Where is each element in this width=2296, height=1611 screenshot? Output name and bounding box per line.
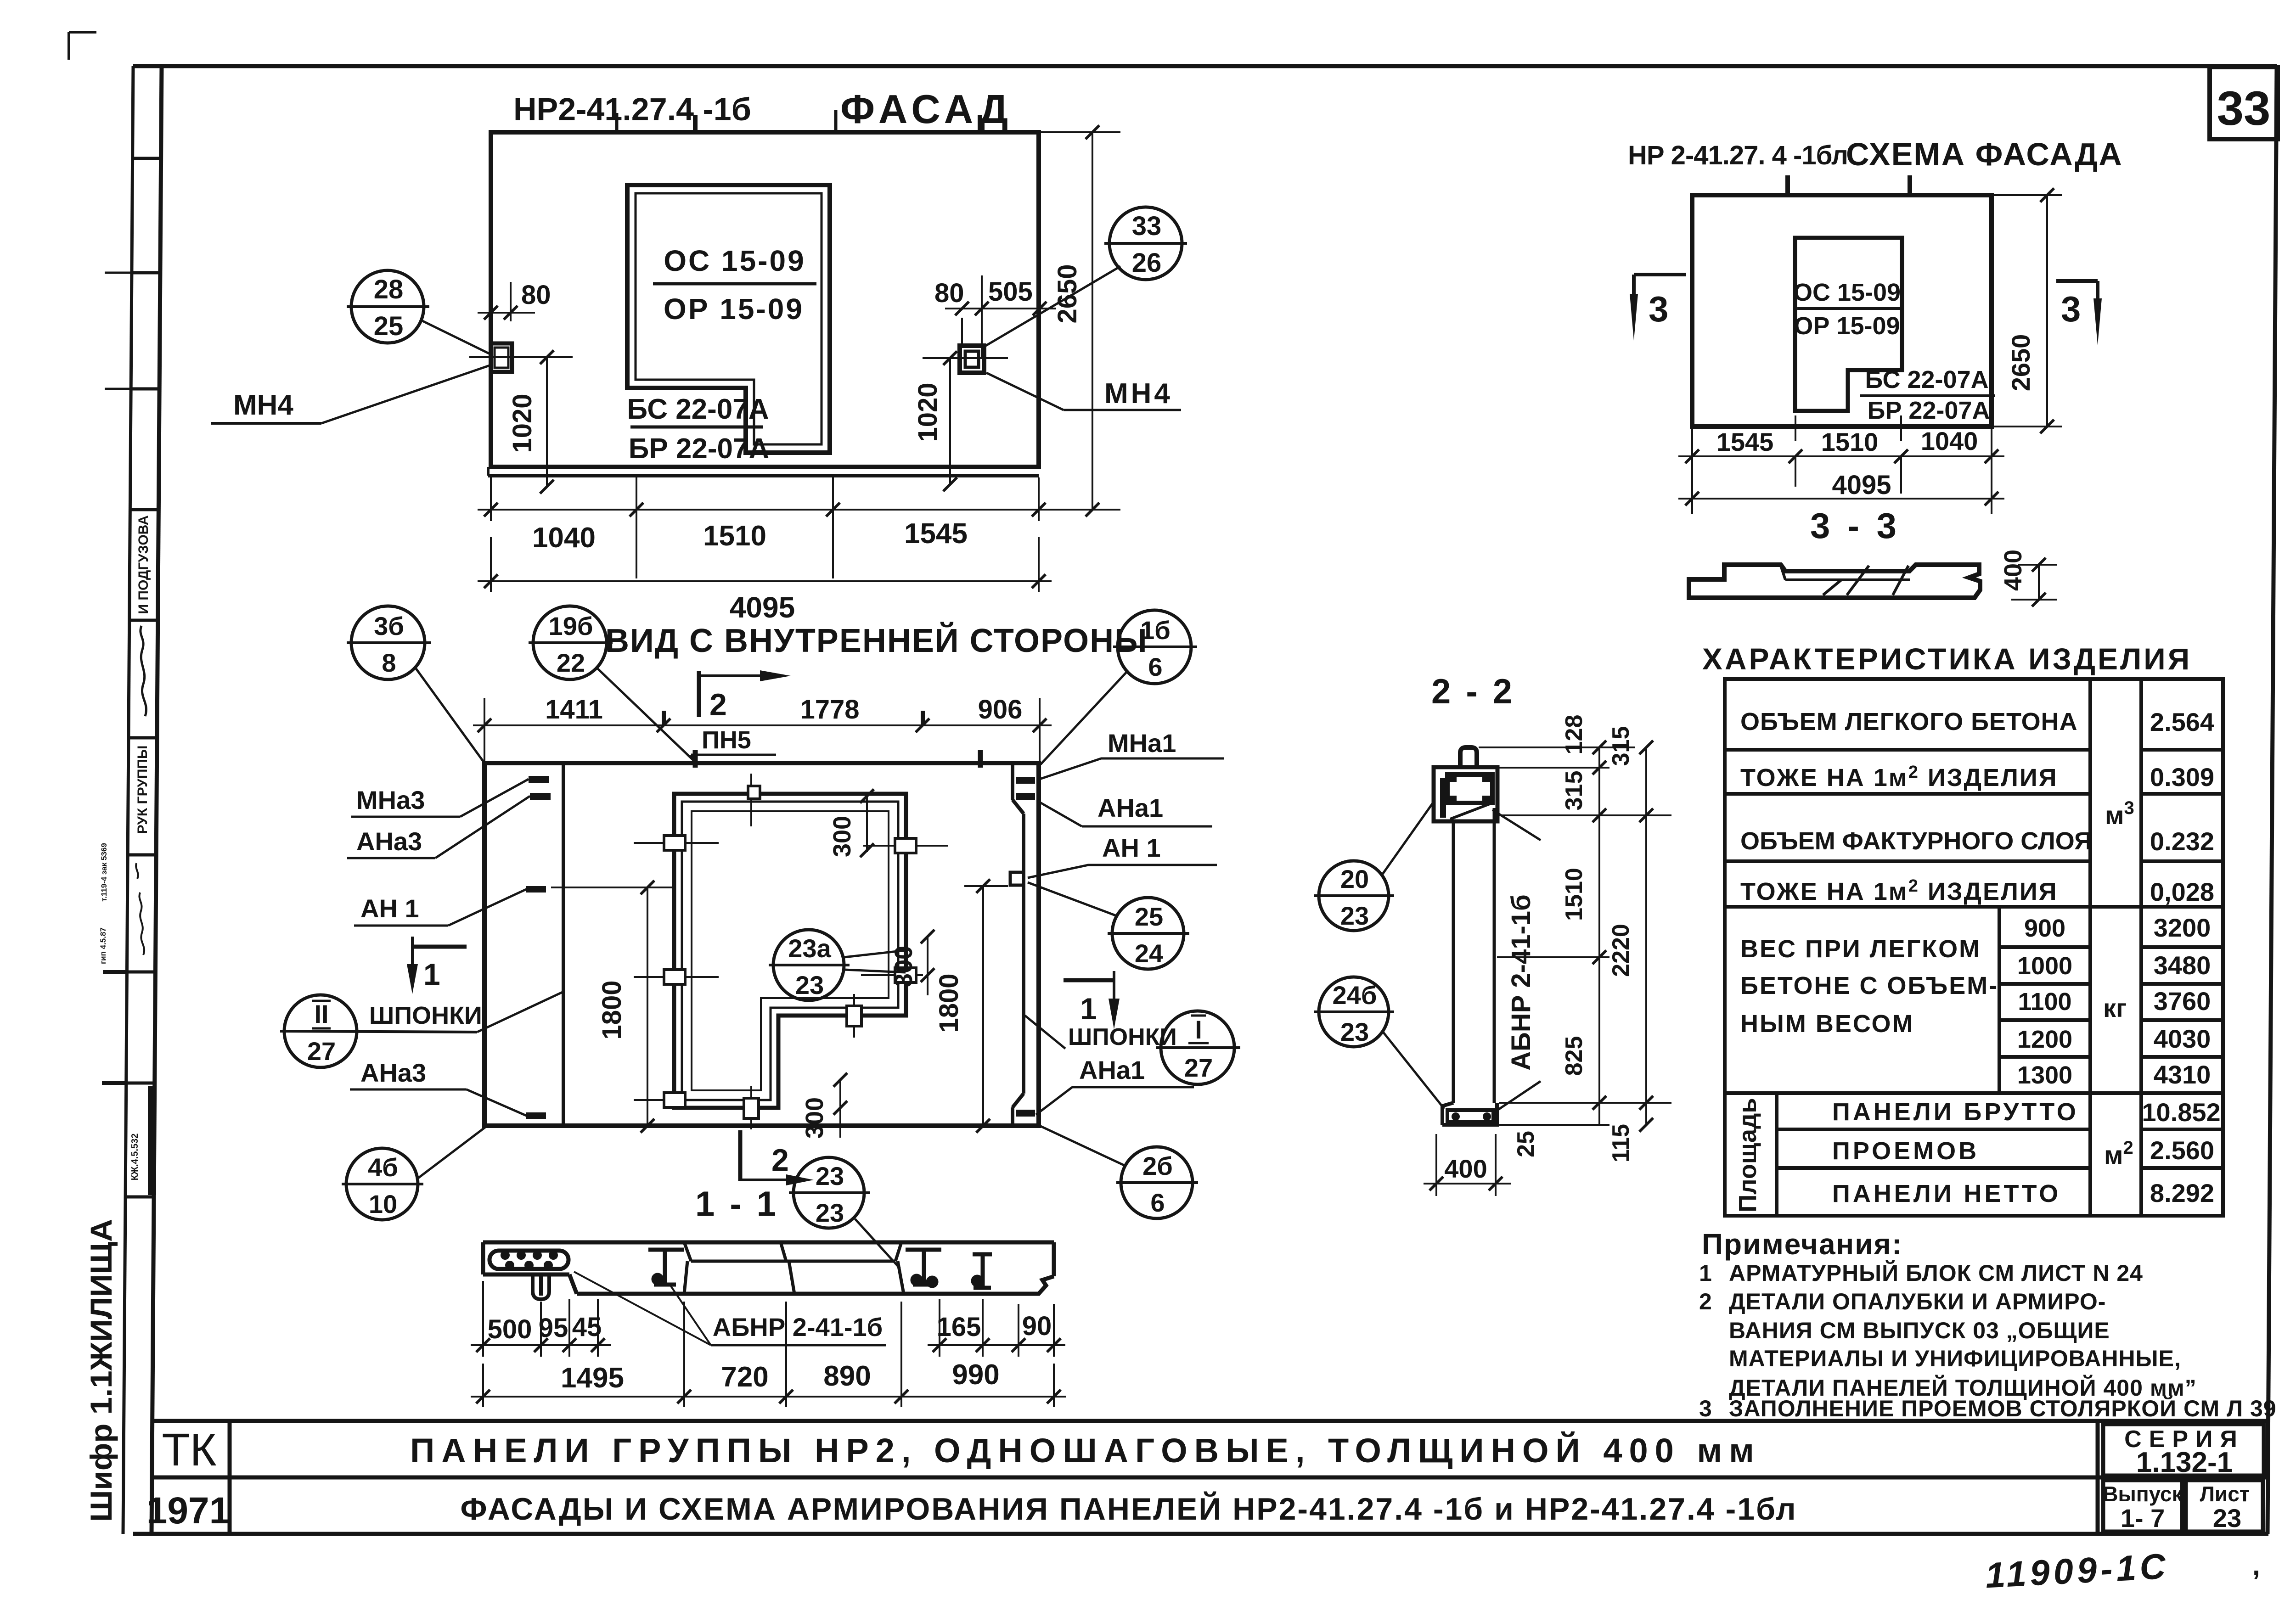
1-1 hook below bbox=[533, 1274, 549, 1299]
svg-text:4030: 4030 bbox=[2154, 1024, 2211, 1053]
svg-text:8.292: 8.292 bbox=[2150, 1179, 2214, 1207]
svg-text:90: 90 bbox=[1022, 1311, 1052, 1341]
svg-text:33: 33 bbox=[2217, 82, 2271, 135]
svg-text:ОР 15-09: ОР 15-09 bbox=[1794, 312, 1900, 340]
callout circle 23a/23 bbox=[769, 930, 906, 1000]
svg-text:МАТЕРИАЛЫ И УНИФИЦИРОВАННЫЕ,: МАТЕРИАЛЫ И УНИФИЦИРОВАННЫЕ, bbox=[1729, 1346, 2181, 1371]
dim 300 bottom bbox=[839, 1080, 841, 1138]
svg-text:НЫМ ВЕСОМ: НЫМ ВЕСОМ bbox=[1740, 1010, 1914, 1038]
dim 1800 right bbox=[964, 885, 1008, 887]
svg-text:1300: 1300 bbox=[2017, 1061, 2072, 1089]
svg-text:ЗАПОЛНЕНИЕ ПРОЕМОВ СТОЛЯРКОЙ С: ЗАПОЛНЕНИЕ ПРОЕМОВ СТОЛЯРКОЙ СМ Л 39 bbox=[1729, 1395, 2277, 1421]
section mark 1 left bbox=[407, 937, 467, 994]
svg-text:ПАНЕЛИ НЕТТО: ПАНЕЛИ НЕТТО bbox=[1832, 1180, 2061, 1207]
callout circle 23/23 bbox=[789, 1157, 900, 1269]
1-1 end channel C bbox=[973, 1254, 992, 1288]
value column bbox=[2142, 707, 2220, 1207]
schema dim 2650 right bbox=[1993, 194, 2062, 196]
interior panel outline bbox=[484, 763, 1039, 1126]
svg-text:АБНР 2-41-1б: АБНР 2-41-1б bbox=[713, 1313, 883, 1342]
svg-text:3б: 3б bbox=[374, 612, 404, 640]
facade bottom dims row 2: 4095 bbox=[490, 537, 492, 592]
svg-text:23: 23 bbox=[1340, 901, 1369, 930]
svg-text:1020: 1020 bbox=[507, 393, 537, 453]
svg-text:1510: 1510 bbox=[703, 520, 766, 552]
schema panel outline bbox=[1692, 195, 1992, 427]
svg-text:,: , bbox=[2252, 1550, 2260, 1581]
svg-text:128: 128 bbox=[1561, 715, 1587, 755]
sidebar signature cell texts (rotated) bbox=[135, 515, 151, 834]
svg-text:НР 2-41.27. 4 -1бл: НР 2-41.27. 4 -1бл bbox=[1628, 140, 1848, 170]
svg-text:1495: 1495 bbox=[561, 1362, 624, 1394]
sheet number box 33 bbox=[2210, 67, 2278, 139]
AH1 tab right bbox=[1010, 872, 1024, 885]
margin register ticks bbox=[105, 272, 132, 274]
svg-text:РУК ГРУППЫ: РУК ГРУППЫ bbox=[135, 746, 150, 834]
svg-text:3760: 3760 bbox=[2154, 987, 2211, 1016]
facade dim 2650 right bbox=[1041, 131, 1120, 133]
svg-text:1778: 1778 bbox=[800, 695, 859, 724]
interior window opening triple outline bbox=[674, 794, 906, 1108]
svg-text:19б: 19б bbox=[549, 612, 593, 640]
2-2 dim 400 bottom bbox=[1435, 1134, 1437, 1196]
svg-text:3 - 3: 3 - 3 bbox=[1810, 505, 1900, 546]
svg-text:4095: 4095 bbox=[1832, 470, 1891, 500]
svg-text:1545: 1545 bbox=[1716, 427, 1774, 456]
svg-text:2: 2 bbox=[709, 687, 727, 722]
svg-text:МНа3: МНа3 bbox=[356, 786, 425, 814]
svg-text:ОР 15-09: ОР 15-09 bbox=[664, 292, 804, 326]
facade window opening (L-shape) bbox=[627, 185, 830, 453]
svg-text:ФАСАДЫ И СХЕМА АРМИРОВАНИЯ ПАН: ФАСАДЫ И СХЕМА АРМИРОВАНИЯ ПАНЕЛЕЙ НР2-4… bbox=[460, 1491, 1797, 1527]
callout circle 19b/22 bbox=[529, 606, 694, 761]
svg-text:23: 23 bbox=[816, 1198, 844, 1227]
right rib anchor bars bbox=[1016, 777, 1035, 784]
callout circle 24b/23 bbox=[1314, 977, 1444, 1109]
svg-text:МН4: МН4 bbox=[233, 389, 293, 421]
svg-text:2650: 2650 bbox=[2006, 334, 2035, 392]
svg-text:20: 20 bbox=[1340, 864, 1369, 893]
svg-text:Площадь: Площадь bbox=[1734, 1098, 1761, 1212]
svg-text:Шифр 1.1ЖИЛИЩА: Шифр 1.1ЖИЛИЩА bbox=[84, 1219, 118, 1522]
svg-text:315: 315 bbox=[1561, 771, 1587, 811]
svg-text:Лист: Лист bbox=[2200, 1482, 2250, 1506]
facade panel outline bbox=[491, 132, 1039, 467]
svg-text:400: 400 bbox=[1444, 1154, 1487, 1183]
section mark 3 left bbox=[1630, 275, 1686, 341]
svg-text:0.309: 0.309 bbox=[2150, 763, 2214, 791]
svg-text:115: 115 bbox=[1608, 1124, 1634, 1162]
sidebar black bar cell bbox=[148, 1086, 156, 1195]
schema window opening (mirrored L) bbox=[1795, 238, 1902, 411]
svg-text:1: 1 bbox=[1699, 1260, 1712, 1286]
svg-text:1510: 1510 bbox=[1561, 868, 1587, 921]
svg-text:НР2-41.27.4 -1б: НР2-41.27.4 -1б bbox=[513, 91, 751, 127]
svg-text:95: 95 bbox=[539, 1313, 568, 1343]
svg-text:825: 825 bbox=[1561, 1036, 1587, 1076]
svg-text:ВАНИЯ СМ ВЫПУСК 03 „ОБЩИЕ: ВАНИЯ СМ ВЫПУСК 03 „ОБЩИЕ bbox=[1729, 1318, 2110, 1343]
svg-text:0.232: 0.232 bbox=[2150, 827, 2214, 856]
svg-text:2220: 2220 bbox=[1608, 924, 1634, 977]
svg-text:2: 2 bbox=[1699, 1289, 1712, 1314]
svg-text:3: 3 bbox=[1649, 289, 1668, 329]
svg-text:990: 990 bbox=[952, 1359, 999, 1391]
svg-text:ОС 15-09: ОС 15-09 bbox=[1793, 279, 1901, 306]
1-1 dims row1 right: 165 90 bbox=[928, 1299, 1065, 1357]
callout circle 1b/6 bbox=[1041, 610, 1197, 764]
svg-text:26: 26 bbox=[1132, 248, 1162, 278]
dim 300 mid-right bbox=[927, 937, 929, 995]
shaft of 2-2 panel bbox=[1452, 822, 1455, 1103]
svg-text:СХЕМА ФАСАДА: СХЕМА ФАСАДА bbox=[1846, 136, 2123, 172]
svg-text:1040: 1040 bbox=[532, 522, 596, 554]
svg-text:1000: 1000 bbox=[2017, 952, 2072, 980]
table row labels bbox=[1740, 708, 2092, 1207]
dim 400 for 3-3 bbox=[2018, 564, 2057, 566]
svg-text:ПРОЕМОВ: ПРОЕМОВ bbox=[1832, 1137, 1979, 1165]
section 3-3 profile bbox=[1689, 565, 1980, 598]
svg-text:6: 6 bbox=[1150, 1188, 1165, 1217]
svg-text:1040: 1040 bbox=[1921, 427, 1978, 455]
left anchor MH4 bbox=[491, 343, 512, 372]
svg-text:МНа1: МНа1 bbox=[1108, 729, 1176, 758]
svg-text:2.560: 2.560 bbox=[2150, 1136, 2214, 1165]
svg-text:1б: 1б bbox=[1140, 616, 1171, 645]
1-1 channel section B bbox=[906, 1250, 941, 1286]
interior top ticks bbox=[693, 750, 698, 768]
svg-text:т.119-4 зак 5369: т.119-4 зак 5369 bbox=[100, 843, 108, 902]
svg-text:ТК: ТК bbox=[162, 1424, 216, 1476]
section mark 3 right bbox=[2056, 281, 2102, 345]
svg-text:0,028: 0,028 bbox=[2150, 877, 2214, 906]
svg-text:3200: 3200 bbox=[2154, 913, 2211, 942]
callout circle 2b/6 bbox=[1040, 1126, 1198, 1218]
svg-text:4095: 4095 bbox=[730, 591, 795, 624]
svg-text:БР 22-07А: БР 22-07А bbox=[629, 433, 770, 465]
svg-text:1 - 1: 1 - 1 bbox=[695, 1184, 779, 1224]
svg-text:27: 27 bbox=[1184, 1053, 1213, 1082]
svg-text:25: 25 bbox=[374, 311, 404, 341]
svg-text:АНа3: АНа3 bbox=[360, 1058, 426, 1087]
schema dims row1: 1545 1510 1040 bbox=[1691, 428, 1693, 514]
svg-text:АБНР 2-41-1б: АБНР 2-41-1б bbox=[1506, 894, 1536, 1071]
right anchor MH4 bbox=[960, 346, 984, 373]
left stamp sidebar bbox=[69, 32, 161, 1534]
svg-text:АН 1: АН 1 bbox=[360, 894, 419, 923]
svg-text:Выпуск: Выпуск bbox=[2103, 1482, 2183, 1506]
svg-text:4б: 4б bbox=[368, 1153, 398, 1182]
svg-text:80: 80 bbox=[521, 280, 551, 310]
svg-text:8: 8 bbox=[382, 648, 396, 677]
svg-text:80: 80 bbox=[934, 278, 964, 308]
svg-text:1: 1 bbox=[1080, 992, 1097, 1026]
svg-text:2б: 2б bbox=[1142, 1151, 1173, 1180]
svg-text:24б: 24б bbox=[1333, 981, 1377, 1010]
svg-text:2.564: 2.564 bbox=[2150, 707, 2214, 736]
svg-text:ТОЖЕ НА 1м2 ИЗДЕЛИЯ: ТОЖЕ НА 1м2 ИЗДЕЛИЯ bbox=[1740, 876, 2058, 905]
left strip anchor bars bbox=[529, 776, 549, 783]
svg-text:ОБЪЕМ ЛЕГКОГО БЕТОНА: ОБЪЕМ ЛЕГКОГО БЕТОНА bbox=[1740, 708, 2078, 735]
svg-text:ОС 15-09: ОС 15-09 bbox=[664, 244, 805, 277]
svg-text:2 - 2: 2 - 2 bbox=[1431, 672, 1515, 711]
svg-text:300: 300 bbox=[828, 816, 856, 857]
window formwork tabs with centerlines bbox=[634, 774, 948, 1129]
svg-text:МН4: МН4 bbox=[1104, 378, 1173, 410]
svg-text:1.132-1: 1.132-1 bbox=[2136, 1447, 2233, 1478]
svg-text:ФАСАД: ФАСАД bbox=[840, 86, 1013, 132]
section mark 1 right bbox=[1064, 971, 1120, 1029]
vypusk box bbox=[2103, 1480, 2182, 1532]
svg-text:ВЕС ПРИ ЛЕГКОМ: ВЕС ПРИ ЛЕГКОМ bbox=[1740, 935, 1981, 963]
dim 1800 left bbox=[551, 887, 673, 888]
callout circle 3b/8 bbox=[347, 606, 484, 763]
callout circle 25/24 bbox=[1028, 882, 1189, 969]
svg-text:1800: 1800 bbox=[597, 980, 627, 1039]
facade top ticks bbox=[693, 115, 698, 133]
svg-text:10: 10 bbox=[369, 1190, 397, 1218]
weight sub values bbox=[2017, 915, 2072, 1089]
top anchor block bbox=[1434, 767, 1497, 821]
svg-text:28: 28 bbox=[374, 275, 404, 304]
svg-text:КЖ.4.5.532: КЖ.4.5.532 bbox=[130, 1134, 140, 1181]
svg-text:1200: 1200 bbox=[2017, 1026, 2072, 1053]
svg-text:БС 22-07А: БС 22-07А bbox=[1865, 366, 1988, 393]
svg-text:23: 23 bbox=[795, 971, 824, 999]
svg-text:ОБЪЕМ ФАКТУРНОГО СЛОЯ: ОБЪЕМ ФАКТУРНОГО СЛОЯ bbox=[1740, 827, 2092, 855]
svg-text:1510: 1510 bbox=[1821, 427, 1879, 456]
2-2 dim lines right bbox=[1479, 747, 1671, 1125]
svg-text:II: II bbox=[314, 999, 328, 1028]
1-1 rebar loop with bars bbox=[490, 1251, 568, 1270]
1-1 dims row1 left: 500 95 45 bbox=[471, 1281, 611, 1357]
sidebar signature squiggle bbox=[141, 626, 146, 716]
svg-text:1971: 1971 bbox=[146, 1490, 230, 1532]
svg-text:ДЕТАЛИ ОПАЛУБКИ И АРМИРО-: ДЕТАЛИ ОПАЛУБКИ И АРМИРО- bbox=[1729, 1289, 2106, 1314]
svg-text:165: 165 bbox=[937, 1312, 981, 1342]
bottom anchor block 2-2 bbox=[1442, 1103, 1497, 1125]
1-1 window recess bbox=[684, 1242, 904, 1294]
svg-text:АН 1: АН 1 bbox=[1102, 833, 1161, 862]
svg-text:АНа3: АНа3 bbox=[356, 827, 422, 856]
svg-text:890: 890 bbox=[823, 1360, 871, 1392]
facade bottom ledge strip bbox=[488, 474, 1039, 477]
svg-text:6: 6 bbox=[1148, 652, 1162, 681]
svg-text:22: 22 bbox=[557, 648, 585, 677]
svg-text:ВИД С ВНУТРЕННЕЙ СТОРОНЫ: ВИД С ВНУТРЕННЕЙ СТОРОНЫ bbox=[605, 622, 1148, 659]
svg-text:4310: 4310 bbox=[2154, 1060, 2211, 1089]
svg-text:10.852: 10.852 bbox=[2142, 1098, 2220, 1127]
svg-text:ХАРАКТЕРИСТИКА ИЗДЕЛИЯ: ХАРАКТЕРИСТИКА ИЗДЕЛИЯ bbox=[1702, 642, 2192, 676]
1-1 panel profile bbox=[483, 1242, 1054, 1294]
svg-text:24: 24 bbox=[1135, 939, 1163, 968]
interior top dims 1411 1778 906 bbox=[484, 698, 485, 761]
svg-text:АРМАТУРНЫЙ БЛОК СМ ЛИСТ N 24: АРМАТУРНЫЙ БЛОК СМ ЛИСТ N 24 bbox=[1729, 1260, 2143, 1286]
svg-text:1545: 1545 bbox=[904, 518, 968, 550]
svg-text:23: 23 bbox=[816, 1162, 844, 1190]
svg-text:23: 23 bbox=[2213, 1504, 2241, 1532]
svg-text:3: 3 bbox=[1699, 1396, 1712, 1421]
svg-text:33: 33 bbox=[1132, 211, 1162, 241]
svg-text:2650: 2650 bbox=[1052, 264, 1082, 323]
svg-text:3: 3 bbox=[2061, 289, 2081, 329]
svg-text:1020: 1020 bbox=[913, 382, 943, 442]
svg-text:БЕТОНЕ С ОБЪЕМ-: БЕТОНЕ С ОБЪЕМ- bbox=[1740, 972, 1998, 999]
lifting hook bbox=[1460, 747, 1477, 768]
facade bottom dims row 1: 1040 1510 1545 bbox=[490, 477, 492, 521]
schema top ticks bbox=[1785, 175, 1790, 195]
svg-text:900: 900 bbox=[2024, 915, 2065, 942]
1-1 channel section A bbox=[648, 1250, 684, 1285]
svg-text:500: 500 bbox=[488, 1314, 532, 1344]
svg-text:300: 300 bbox=[801, 1097, 828, 1139]
callout circle 33/26 bbox=[985, 207, 1187, 346]
svg-text:БР 22-07А: БР 22-07А bbox=[1868, 397, 1990, 424]
svg-text:1100: 1100 bbox=[2018, 988, 2071, 1016]
svg-text:АНа1: АНа1 bbox=[1097, 793, 1163, 822]
svg-text:ШПОНКИ: ШПОНКИ bbox=[369, 1002, 482, 1029]
svg-text:ПАНЕЛИ ГРУППЫ НР2, ОДНОШАГОВЫЕ: ПАНЕЛИ ГРУППЫ НР2, ОДНОШАГОВЫЕ, ТОЛЩИНОЙ… bbox=[410, 1431, 1761, 1470]
svg-text:1800: 1800 bbox=[934, 973, 964, 1033]
svg-text:27: 27 bbox=[307, 1037, 336, 1066]
svg-text:315: 315 bbox=[1608, 726, 1634, 766]
svg-text:АНа1: АНа1 bbox=[1079, 1055, 1145, 1084]
schema dims row2: 4095 bbox=[1678, 498, 2004, 500]
svg-text:25: 25 bbox=[1513, 1131, 1539, 1157]
callout circle 28/25 bbox=[347, 270, 491, 354]
svg-text:45: 45 bbox=[572, 1312, 602, 1342]
svg-text:И ПОДГУЗОВА: И ПОДГУЗОВА bbox=[136, 515, 151, 614]
svg-text:906: 906 bbox=[978, 695, 1023, 724]
svg-text:Примечания:: Примечания: bbox=[1702, 1228, 1902, 1261]
svg-text:25: 25 bbox=[1135, 902, 1163, 931]
callout circle 4b/10 bbox=[342, 1127, 485, 1220]
1-1 dims row2: 1495 720 890 990 bbox=[471, 1302, 1066, 1407]
svg-text:2: 2 bbox=[771, 1143, 789, 1178]
svg-text:ТОЖЕ НА 1м2 ИЗДЕЛИЯ: ТОЖЕ НА 1м2 ИЗДЕЛИЯ bbox=[1740, 763, 2058, 791]
seriya box bbox=[2103, 1424, 2264, 1476]
dim 300 top-right bbox=[866, 796, 868, 852]
svg-text:ПАНЕЛИ БРУТТО: ПАНЕЛИ БРУТТО bbox=[1832, 1098, 2079, 1126]
list box bbox=[2186, 1480, 2263, 1532]
svg-text:1- 7: 1- 7 bbox=[2121, 1504, 2165, 1532]
callout circle 20/23 bbox=[1314, 780, 1433, 931]
svg-text:23а: 23а bbox=[788, 934, 831, 963]
svg-text:400: 400 bbox=[1999, 550, 2027, 591]
svg-text:1411: 1411 bbox=[545, 695, 603, 724]
section mark 2 top bbox=[699, 670, 791, 722]
svg-text:кг: кг bbox=[2103, 994, 2127, 1022]
svg-text:23: 23 bbox=[1340, 1017, 1369, 1046]
svg-text:720: 720 bbox=[721, 1361, 768, 1393]
svg-text:505: 505 bbox=[988, 277, 1033, 307]
svg-text:БС 22-07А: БС 22-07А bbox=[627, 393, 769, 425]
svg-text:3480: 3480 bbox=[2154, 951, 2211, 980]
interior left strip divider bbox=[562, 763, 565, 1126]
section mark 2 bottom bbox=[740, 1130, 814, 1185]
svg-text:I: I bbox=[1195, 1015, 1202, 1044]
table grid bbox=[1725, 679, 2223, 1216]
svg-text:1: 1 bbox=[423, 957, 440, 991]
svg-text:ПН5: ПН5 bbox=[702, 726, 751, 754]
interior right end rib bbox=[1013, 764, 1024, 1126]
svg-text:гип 4.5.87: гип 4.5.87 bbox=[99, 927, 107, 964]
